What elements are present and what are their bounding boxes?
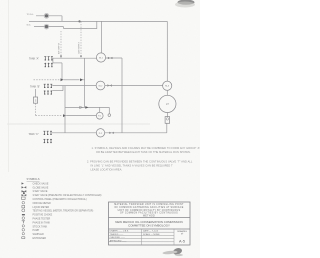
svg-text:PUMP: PUMP (33, 230, 40, 232)
title block cell A text (114, 203, 184, 217)
svg-text:UNIT OF COMMON ROYALTY BY CONT: UNIT OF COMMON ROYALTY BY CONTINUOUS (118, 209, 181, 212)
svg-text:CONTROL PANEL (PNEUMATIC OR EL: CONTROL PANEL (PNEUMATIC OR ELECTRICAL) (33, 198, 87, 201)
svg-text:CHECK VALVE: CHECK VALVE (33, 182, 49, 185)
svg-text:1. SYMBOLS, DEVICES AND FIGUR: 1. SYMBOLS, DEVICES AND FIGURES MAY BE C… (92, 147, 201, 150)
legend row 12: sampler (22, 225, 24, 227)
svg-text:LIQUID METER: LIQUID METER (33, 207, 50, 209)
valve 2 on drain (80, 78, 83, 81)
svg-text:ENTRAINER: ENTRAINER (33, 237, 47, 240)
legend row 13: pump (22, 229, 25, 232)
wire drain solid (64, 79, 80, 81)
control signal dashed line 2 (80, 21, 82, 57)
dashed wire to pump P-1 (36, 115, 63, 117)
svg-text:LT: LT (166, 102, 169, 106)
pump transfer wire (65, 106, 109, 108)
wire TO S.L. (36, 15, 62, 17)
svg-text:OF COMMON FACILITIES BY CONTIN: OF COMMON FACILITIES BY CONTINUOUS (120, 212, 178, 215)
tank A drain dashed wire (34, 79, 60, 81)
svg-text:DATE — 7-1-55: DATE — 7-1-55 (143, 230, 159, 233)
svg-text:TRACED ——: TRACED —— (110, 233, 125, 236)
check valve right of M-2 (107, 84, 112, 86)
legend row 3: 3-way valve (22, 190, 27, 192)
legend row 1: check valve (22, 182, 24, 184)
legend row 11: stock tank (22, 221, 25, 224)
svg-text:STOCK TANK: STOCK TANK (33, 225, 48, 228)
filled valve on transfer wire (85, 106, 88, 109)
motor M-2 (96, 81, 105, 90)
vertical wire x=84.6 (84, 58, 86, 107)
tank C valve manifold row 1 (43, 131, 52, 135)
paper background (0, 0, 200, 258)
NOTES paragraph 2 (87, 161, 193, 172)
bottom stamp smudge (162, 247, 183, 256)
svg-text:GAS SUPPLY: GAS SUPPLY (78, 41, 81, 54)
svg-text:AIR SUPPLY: AIR SUPPLY (58, 42, 61, 54)
title block divider 1 (109, 217, 191, 219)
svg-text:SAMPLER: SAMPLER (33, 233, 44, 236)
svg-text:TO S.L.: TO S.L. (27, 14, 35, 16)
svg-text:MATERIAL TRANSFER UNIT IS COMI: MATERIAL TRANSFER UNIT IS COMINGLING POI… (114, 203, 184, 206)
svg-text:OF COMMON GATHERING FACILITIES: OF COMMON GATHERING FACILITIES AT SURFAC… (114, 206, 183, 209)
open valve on transfer wire (80, 106, 83, 109)
main bus wire (29, 20, 167, 22)
legend row 7: liquid meter (22, 206, 25, 208)
title block signature rows (109, 229, 175, 245)
legend row 8: testing vessel (22, 209, 25, 212)
wire to pump P-1 (66, 115, 96, 117)
wire line D (64, 21, 97, 28)
svg-text:Nº: Nº (181, 232, 183, 235)
svg-text:TANK “C”: TANK “C” (29, 133, 39, 136)
riser to meter box (166, 123, 168, 133)
motor M-3 (163, 81, 172, 90)
drawing number cell (177, 230, 187, 244)
dashed wire from box down (35, 103, 37, 115)
svg-text:3-WAY VALVE (PNEUMATIC OR ELE: 3-WAY VALVE (PNEUMATIC OR ELECTRICALLY C… (33, 194, 102, 197)
vent drop and port circle (108, 107, 110, 113)
wire S.G. (34, 26, 64, 28)
junction dot on bus (78, 20, 80, 22)
svg-text:TESTING VESSEL (METER, TREATER: TESTING VESSEL (METER, TREATER OR SEPARA… (33, 210, 94, 213)
svg-text:METHOD: METHOD (143, 215, 155, 217)
wire M-3 to test vessel (166, 90, 168, 95)
valve on drain (61, 78, 64, 81)
signal arrowhead 1 (60, 56, 62, 58)
svg-text:SCALE — NONE: SCALE — NONE (143, 233, 160, 236)
wire P-2 to meter run riser (105, 132, 167, 134)
svg-text:OR BE ADAPTED BETWEEN EACH TAN: OR BE ADAPTED BETWEEN EACH TANK OF THE M… (96, 151, 191, 154)
legend row 9: positive choke (22, 214, 25, 215)
wire M-2 to M-3 (105, 85, 163, 87)
vertical wire x=65 (64, 86, 66, 133)
svg-text:POSITIVE CHOKE: POSITIVE CHOKE (33, 215, 53, 217)
title block divider 2 (109, 228, 191, 230)
wire vessel to meter box (166, 113, 168, 117)
legend row 6: orifice meter (22, 201, 25, 204)
top edge smudge (175, 0, 195, 7)
valve on pump suction (63, 114, 66, 117)
pump P-1 (96, 112, 103, 119)
check valve right of P-2 (109, 132, 114, 134)
motor M-1 (96, 53, 105, 62)
wire bus drop to M-1 (101, 21, 103, 53)
wire S.G. drop (63, 27, 65, 29)
tank A row 2 stub wire (53, 62, 62, 64)
svg-text:SYMBOLS: SYMBOLS (27, 177, 40, 181)
NOTES paragraph 1 (92, 147, 201, 154)
svg-text:GLOBE VALVE: GLOBE VALVE (33, 186, 49, 189)
scan grain overlay (0, 0, 200, 258)
liquid meter box (165, 117, 170, 124)
svg-text:S.G.: S.G. (27, 25, 32, 27)
meter circle on S.G. line (45, 25, 48, 28)
svg-text:APPROVED ——: APPROVED —— (110, 239, 128, 242)
svg-text:PHASE TESTER: PHASE TESTER (33, 218, 51, 221)
wire M-1 to riser (106, 57, 122, 59)
svg-text:DRAWN —— J.B.S.: DRAWN —— J.B.S. (110, 230, 130, 233)
riser wire x=122 (121, 58, 123, 133)
signal arrowhead 2 (80, 56, 82, 58)
legend row 4: controlled 3-way valve (22, 194, 27, 196)
tank A valve manifold row 1 (44, 57, 53, 61)
tank C valve manifold row 2 (43, 139, 52, 143)
svg-text:ORIFICE METER: ORIFICE METER (33, 203, 52, 205)
wire drop to bus (61, 16, 63, 22)
title block outer box (109, 202, 191, 245)
svg-text:IN LINE “L” AND VESSEL TANKS: IN LINE “L” AND VESSEL TANKS A VALVES CA… (91, 165, 174, 168)
meter circle on TO S.L. line (45, 14, 48, 17)
svg-text:2. PROVING CAN BE PROVIDED B: 2. PROVING CAN BE PROVIDED BETWEEN THE C… (87, 161, 193, 164)
tank B outlet wire to M-2 (52, 85, 96, 87)
tank A valve manifold row 2 (45, 63, 52, 67)
pump P-2 (96, 129, 104, 137)
svg-text:CHECKED ——: CHECKED —— (110, 237, 126, 239)
svg-text:DRAWING: DRAWING (177, 230, 187, 233)
legend row 10: pressure gauge (22, 217, 25, 220)
tank B row2 stub (52, 90, 63, 92)
svg-text:LEASE LOCATION AREA.: LEASE LOCATION AREA. (91, 168, 123, 171)
tank B valve manifold row 2 (45, 90, 52, 94)
legend rows (22, 182, 102, 240)
tank C outlet wire to pump P-2 (52, 132, 96, 134)
test vessel LT (159, 95, 176, 112)
wire bus drop right side (166, 21, 168, 81)
title block agency name (115, 220, 183, 228)
tank A outlet wire to M-1 (53, 57, 97, 59)
svg-text:TANK “A”: TANK “A” (29, 57, 39, 60)
control signal dashed line 1 (60, 31, 62, 58)
svg-text:COMMITTEE ON SYMBOLOGY: COMMITTEE ON SYMBOLOGY (128, 224, 170, 228)
legend row 15: entrainer (22, 237, 25, 239)
left crease line (8, 0, 10, 172)
svg-text:PHASE IN TANK: PHASE IN TANK (33, 221, 51, 224)
legend row 14: sampler (22, 233, 24, 235)
instrument box under tank B (35, 89, 37, 97)
wire to vertical x=84.6 (83, 79, 84, 81)
tank B valve manifold row 1 (44, 84, 53, 88)
horizontal crease (7, 123, 150, 125)
svg-text:TANK “B”: TANK “B” (30, 86, 40, 89)
check valve right of M-1 (108, 57, 113, 59)
wire manifold connector (52, 58, 54, 63)
wire drop from row 2 (61, 63, 63, 80)
legend row 2: globe valve (22, 186, 27, 188)
pump P-1 stem (99, 107, 101, 112)
svg-text:3-WAY VALVE: 3-WAY VALVE (33, 190, 48, 193)
svg-text:A-5: A-5 (179, 240, 185, 244)
legend row 5: control panel (22, 197, 26, 199)
